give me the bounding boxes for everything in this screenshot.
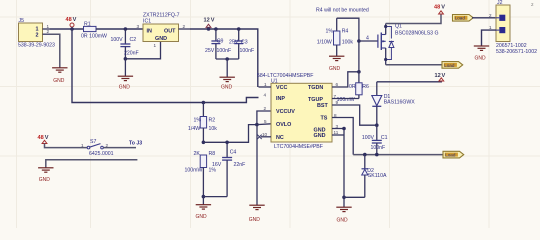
diode D1 xyxy=(372,82,415,125)
ground below C2 xyxy=(118,76,133,80)
svg-text:25V: 25V xyxy=(229,40,239,46)
node C2 bottom junction xyxy=(124,57,128,61)
capacitor C3 xyxy=(229,29,254,59)
svg-text:NC: NC xyxy=(276,135,284,141)
svg-text:6: 6 xyxy=(336,82,339,87)
svg-text:1/4W: 1/4W xyxy=(188,126,200,132)
svg-text:16V: 16V xyxy=(212,162,222,168)
wire TS source rail xyxy=(353,154,443,156)
wire 48V rail top xyxy=(50,28,83,30)
wire Q1 source rail to Load xyxy=(386,64,442,66)
wire J2 pin1 to ground xyxy=(482,30,497,46)
pin 10 NC xyxy=(261,136,271,138)
svg-text:2: 2 xyxy=(47,29,50,34)
svg-text:538-39-29-9023: 538-39-29-9023 xyxy=(18,43,55,49)
svg-text:2: 2 xyxy=(36,32,39,38)
svg-text:LTC7004HMSE#PBF: LTC7004HMSE#PBF xyxy=(274,144,323,150)
wire Q1 drain rail xyxy=(386,14,441,24)
svg-text:100mW: 100mW xyxy=(185,168,203,174)
svg-text:1: 1 xyxy=(264,82,267,87)
wire GND pins to ground xyxy=(332,129,344,198)
wire TGDN to R6 top xyxy=(332,72,359,87)
svg-text:OUT: OUT xyxy=(164,29,176,35)
svg-text:C4: C4 xyxy=(230,150,237,156)
svg-text:GND: GND xyxy=(475,56,487,62)
svg-text:IC1: IC1 xyxy=(143,19,151,25)
net label Load TS xyxy=(443,151,464,158)
svg-text:GND: GND xyxy=(155,36,167,42)
svg-text:VCC: VCC xyxy=(276,85,287,91)
svg-text:1%: 1% xyxy=(209,168,217,174)
wire C4 bottom to R8 xyxy=(203,196,227,198)
wire to OVLO pin xyxy=(257,123,271,126)
node GND pin junction xyxy=(342,127,346,131)
svg-text:R2: R2 xyxy=(209,118,216,124)
svg-text:R6: R6 xyxy=(362,84,369,90)
svg-text:10k: 10k xyxy=(209,126,218,132)
svg-text:VCCUV: VCCUV xyxy=(276,109,295,115)
node C4 divider tap xyxy=(225,141,229,145)
svg-text:1: 1 xyxy=(154,43,157,48)
wire R8 to ground xyxy=(202,197,204,205)
node D2 tap xyxy=(363,153,367,157)
svg-text:C2: C2 xyxy=(130,37,137,43)
capacitor C2 xyxy=(111,29,139,59)
ground below U1 left xyxy=(249,205,264,209)
svg-text:C1: C1 xyxy=(381,135,388,141)
svg-text:GND: GND xyxy=(53,78,64,84)
capacitor C4 xyxy=(212,142,245,196)
svg-text:5: 5 xyxy=(264,119,267,124)
ground below R4 xyxy=(329,56,344,60)
svg-text:TS: TS xyxy=(321,116,328,122)
svg-text:48: 48 xyxy=(434,5,440,11)
svg-text:V: V xyxy=(45,135,49,141)
power port 12V xyxy=(204,18,215,30)
svg-text:100k: 100k xyxy=(342,40,354,46)
svg-text:V: V xyxy=(442,73,446,79)
svg-text:BAS116GWX: BAS116GWX xyxy=(384,100,416,106)
node R6 top junction xyxy=(357,70,361,74)
svg-text:GND: GND xyxy=(329,66,341,72)
node gate net junction xyxy=(357,39,361,43)
svg-text:To J3: To J3 xyxy=(129,141,142,147)
svg-text:GND: GND xyxy=(314,133,326,139)
pin 2 of IC1 xyxy=(179,28,191,30)
svg-text:Load: Load xyxy=(455,16,466,21)
transistor Q1 xyxy=(378,24,439,65)
svg-text:GND: GND xyxy=(119,85,131,91)
ground below U1 right xyxy=(336,207,351,211)
node C9 tap xyxy=(214,27,218,31)
wire 48V to switch S7 xyxy=(45,144,88,148)
ground below R8 xyxy=(196,205,211,209)
power port 48V right xyxy=(434,5,445,15)
node C3 tap xyxy=(237,27,241,31)
resistor R8 xyxy=(185,151,217,197)
node caps gnd junction xyxy=(225,57,229,61)
svg-text:GND: GND xyxy=(337,218,349,224)
node C2 tap xyxy=(124,27,128,31)
svg-text:J5: J5 xyxy=(19,18,25,24)
svg-text:V: V xyxy=(441,5,445,11)
svg-text:100nF: 100nF xyxy=(371,145,386,151)
wire D1 anode to 12V xyxy=(377,80,442,83)
node VCCUV OVLO tie xyxy=(255,123,259,127)
ground below J2 xyxy=(474,46,489,50)
power port 48V top-left xyxy=(66,17,77,29)
op-amp U1 xyxy=(257,73,332,150)
pin 1 VCC xyxy=(259,86,272,88)
svg-text:INP: INP xyxy=(276,96,285,102)
svg-text:538-206571-1002: 538-206571-1002 xyxy=(496,49,537,55)
wire J5 pin2 to ground xyxy=(50,34,60,67)
power port 48V lower-left xyxy=(38,135,49,144)
svg-text:12: 12 xyxy=(204,18,210,24)
svg-text:584-LTC7004HMSEPBF: 584-LTC7004HMSEPBF xyxy=(257,73,313,79)
svg-text:C3: C3 xyxy=(241,40,248,46)
no-connect cross pin10 xyxy=(257,135,261,139)
svg-text:10: 10 xyxy=(262,132,268,137)
svg-text:3: 3 xyxy=(137,24,140,29)
svg-text:J2: J2 xyxy=(497,0,503,6)
connector J2 xyxy=(496,0,537,55)
ground below C9 C3 xyxy=(220,77,235,81)
wire TGUP to R6 bottom xyxy=(332,98,359,100)
svg-text:BST: BST xyxy=(317,103,328,109)
svg-text:1/10W: 1/10W xyxy=(317,40,332,46)
svg-text:1%: 1% xyxy=(326,29,334,35)
svg-text:BSC028N06LS3 G: BSC028N06LS3 G xyxy=(395,31,439,37)
svg-text:GND: GND xyxy=(196,214,208,220)
svg-text:GND: GND xyxy=(39,177,51,183)
svg-text:Load: Load xyxy=(445,153,456,158)
wire BST to bootstrap node xyxy=(332,105,377,125)
svg-text:1: 1 xyxy=(81,143,84,148)
wire IC1 OUT to 12V node xyxy=(190,29,258,87)
svg-text:2: 2 xyxy=(264,106,267,111)
net label Load top xyxy=(453,15,474,22)
wire OVLO node down to ground xyxy=(256,125,258,205)
ground below J5 xyxy=(52,68,67,72)
svg-text:R8: R8 xyxy=(209,151,216,157)
svg-text:S7: S7 xyxy=(90,139,96,145)
resistor R6 xyxy=(337,72,369,103)
svg-text:1%: 1% xyxy=(194,118,202,124)
svg-text:SK110A: SK110A xyxy=(368,173,387,179)
switch S7 xyxy=(81,139,114,157)
svg-text:220nF: 220nF xyxy=(124,51,139,57)
svg-text:OVLO: OVLO xyxy=(276,122,291,128)
wire 48V sense line to INP xyxy=(72,29,259,103)
svg-text:TGDN: TGDN xyxy=(308,85,323,91)
svg-text:2: 2 xyxy=(183,24,186,29)
wire divider rail to VCCUV OVLO xyxy=(203,125,257,143)
svg-text:R4: R4 xyxy=(342,29,349,35)
net label Load source xyxy=(442,62,463,69)
svg-text:0R 100mW: 0R 100mW xyxy=(81,34,107,40)
wire to VCCUV pin xyxy=(257,111,271,125)
wire TS to source rail xyxy=(332,118,353,155)
svg-text:4: 4 xyxy=(366,36,369,42)
node R2 top tap xyxy=(202,101,206,105)
svg-text:C9: C9 xyxy=(217,39,224,45)
svg-text:U1: U1 xyxy=(271,79,278,85)
svg-text:100nF: 100nF xyxy=(240,48,255,54)
node R8 C4 gnd junction xyxy=(202,195,206,199)
svg-text:Q1: Q1 xyxy=(395,24,402,30)
node divider junction xyxy=(202,141,206,145)
node 48V junction xyxy=(70,27,74,31)
svg-text:GND: GND xyxy=(249,217,260,223)
connector J5 xyxy=(18,18,55,49)
svg-text:4: 4 xyxy=(264,93,267,98)
svg-text:12: 12 xyxy=(435,73,441,79)
svg-text:100nF: 100nF xyxy=(217,48,232,54)
resistor R1 xyxy=(81,22,107,40)
capacitor C1 xyxy=(362,125,388,154)
wire D2 anode to gnd column xyxy=(344,196,365,198)
wire S7 to J3 xyxy=(103,147,136,149)
wire cap bottoms xyxy=(216,58,239,60)
svg-text:IN: IN xyxy=(147,29,152,35)
svg-text:22nF: 22nF xyxy=(234,162,246,168)
wire Load to J2 pin2 xyxy=(472,17,496,19)
wire IC1 GND to C2 node xyxy=(125,42,160,59)
svg-text:0R: 0R xyxy=(349,84,356,90)
svg-text:2K: 2K xyxy=(194,151,201,157)
pin 1 of J5 xyxy=(43,28,51,30)
pin 2 of J5 xyxy=(43,33,51,35)
svg-text:48: 48 xyxy=(38,135,44,141)
diode D2 xyxy=(362,155,387,198)
svg-text:48: 48 xyxy=(66,17,72,23)
svg-text:V: V xyxy=(73,17,77,23)
wire C2 node to ground xyxy=(124,59,126,76)
svg-text:V: V xyxy=(211,18,215,24)
node C1 bottom tap xyxy=(375,153,379,157)
node BST bootstrap junction xyxy=(375,123,379,127)
svg-text:100V: 100V xyxy=(362,135,375,141)
node GND bottom junction xyxy=(342,196,346,200)
capacitor C9 xyxy=(205,29,231,59)
regulator IC1 xyxy=(143,13,180,43)
svg-text:100V: 100V xyxy=(111,37,124,43)
svg-text:6425.0001: 6425.0001 xyxy=(89,151,114,157)
svg-text:2: 2 xyxy=(489,13,492,18)
svg-text:R1: R1 xyxy=(84,22,91,28)
svg-text:Load: Load xyxy=(444,63,455,68)
power port 12V right xyxy=(435,73,446,81)
svg-text:GND: GND xyxy=(221,85,233,91)
resistor R2 xyxy=(188,103,217,143)
wire down to ground symbol xyxy=(343,197,345,207)
ground lower-left xyxy=(38,168,53,172)
svg-text:1: 1 xyxy=(489,25,492,30)
svg-text:R4 will not be mounted: R4 will not be mounted xyxy=(316,8,369,14)
wire R1 to IC1 xyxy=(96,28,143,30)
resistor R4 xyxy=(317,18,354,56)
svg-text:25V: 25V xyxy=(205,48,215,54)
ground wire to J3 xyxy=(46,160,138,168)
wire caps to ground xyxy=(226,59,228,77)
wire gate net 4 xyxy=(359,40,378,42)
wire R4 top over to gate column xyxy=(337,18,359,72)
